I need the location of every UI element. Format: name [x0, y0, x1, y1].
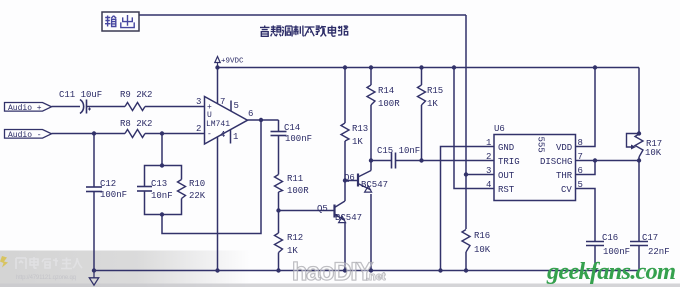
node ground at C16	[593, 268, 597, 272]
svg-text:2: 2	[196, 124, 201, 134]
svg-text:BC547: BC547	[361, 180, 388, 190]
svg-text:TRIG: TRIG	[498, 157, 520, 167]
resistor R13	[341, 123, 349, 141]
node ground at 555 GND wire	[438, 268, 442, 272]
svg-text:C12: C12	[100, 179, 116, 189]
capacitor C12	[86, 187, 102, 192]
IC U6 555	[494, 135, 576, 201]
svg-text:DISCHG: DISCHG	[540, 157, 572, 167]
power symbol +9VDC	[215, 57, 220, 68]
wire op-amp pin7 to rail	[217, 68, 219, 105]
node R17 bottom/DISCHG/C17	[637, 158, 641, 162]
svg-text:1K: 1K	[352, 137, 363, 147]
svg-text:4: 4	[486, 180, 491, 190]
svg-text:7: 7	[578, 152, 583, 162]
svg-text:-: -	[207, 130, 212, 139]
svg-text:22K: 22K	[189, 191, 206, 201]
wire op-amp output	[248, 119, 279, 121]
svg-text:geekfans.com: geekfans.com	[546, 258, 676, 285]
svg-text:R8 2K2: R8 2K2	[120, 119, 152, 129]
wire node pin2 down to C13/R10 loop	[161, 134, 163, 166]
wire C15 to TRIG pin2	[396, 160, 495, 162]
svg-text:1: 1	[486, 138, 491, 148]
wire R9 to op-amp pin3	[145, 106, 205, 108]
wire audio+ input	[52, 106, 81, 108]
svg-text:R13: R13	[352, 124, 368, 134]
svg-text:8: 8	[578, 138, 583, 148]
svg-text:5: 5	[234, 101, 239, 111]
node R14/Q6 collector/C15	[369, 158, 373, 162]
wire C17 to ground	[638, 246, 640, 271]
wire 555 pin7 DISCHG to R17 bottom	[576, 160, 640, 162]
wire 555 pin4 RST to rail	[454, 68, 494, 189]
power rail +9V	[218, 67, 640, 69]
svg-text:22nF: 22nF	[648, 247, 670, 257]
svg-text:3: 3	[486, 166, 491, 176]
svg-text:1: 1	[233, 132, 238, 142]
node +9V at op-amp pin7	[215, 65, 219, 69]
node R11/R12/Q5 base	[276, 208, 280, 212]
glyphs 输出	[105, 15, 134, 28]
wire output to C14	[278, 120, 280, 132]
wire Q5 emitter to ground	[344, 222, 346, 271]
svg-text:555: 555	[536, 137, 546, 153]
wire R12 to ground	[278, 253, 280, 271]
svg-text:Audio -: Audio -	[8, 131, 42, 140]
svg-text:BC547: BC547	[335, 213, 362, 223]
wire output vertical drop to OUT node	[465, 15, 467, 229]
node ground at op-amp pin4	[215, 268, 219, 272]
resistor R8	[125, 130, 145, 138]
capacitor C14	[271, 132, 287, 136]
svg-text:4: 4	[220, 130, 225, 140]
resistor R16	[462, 230, 470, 253]
transistor Q5	[335, 181, 346, 223]
node ground at Q6 emitter	[369, 268, 373, 272]
wire R15 top to rail	[421, 68, 423, 86]
svg-text:R10: R10	[189, 179, 205, 189]
svg-text:Q5: Q5	[317, 204, 328, 214]
svg-text:100R: 100R	[287, 186, 309, 196]
svg-text:7: 7	[220, 97, 225, 107]
svg-text:C13: C13	[151, 179, 167, 189]
resistor R11	[275, 175, 283, 193]
wire R17 bottom node down to C17	[638, 157, 640, 242]
wire OUT node to ground via R16 lead	[465, 252, 467, 271]
node ground at R16	[464, 268, 468, 272]
svg-text:R12: R12	[287, 233, 303, 243]
wire R14 bottom to Q6 collector node	[370, 105, 372, 161]
resistor R15	[418, 85, 426, 105]
svg-text:R15: R15	[427, 86, 443, 96]
node +9V at R13	[343, 65, 347, 69]
svg-text:10K: 10K	[474, 245, 491, 255]
svg-text:CV: CV	[561, 185, 572, 195]
svg-text:http://4791121.qzone.qq: http://4791121.qzone.qq	[16, 275, 76, 281]
svg-text:6: 6	[248, 109, 253, 119]
resistor R14	[367, 85, 375, 105]
svg-text:2: 2	[486, 152, 491, 162]
node +9V at RST wire	[452, 65, 456, 69]
node +9V at R14	[369, 65, 373, 69]
wire 555 pin3 OUT stub	[466, 174, 494, 176]
svg-text:U6: U6	[494, 124, 505, 134]
node +9V at R15	[419, 65, 423, 69]
node op-amp inverting input	[160, 131, 164, 135]
wire C12 branch down	[93, 134, 95, 188]
svg-text:100nF: 100nF	[100, 190, 127, 200]
title 音频调制灭弧电路	[260, 26, 348, 37]
capacitor C15	[392, 153, 396, 169]
transistor Q6	[358, 161, 372, 193]
wire rail right end down to R17	[638, 68, 640, 135]
wire C16 to ground	[594, 246, 596, 271]
wire R11 to node	[278, 192, 280, 233]
svg-text:U: U	[207, 111, 212, 120]
watermark lightning icon	[0, 256, 8, 268]
wire Q5 collector node to Q6 base	[345, 180, 358, 182]
wire C14 to R11	[278, 136, 280, 175]
node +9V at VDD wire	[593, 65, 597, 69]
port Audio -	[5, 130, 52, 141]
svg-text:OUT: OUT	[498, 171, 515, 181]
capacitor C17	[630, 242, 648, 246]
svg-text:R9 2K2: R9 2K2	[120, 90, 152, 100]
wire Q6 emitter to ground	[370, 194, 372, 271]
wire C13/R10 loop top	[145, 166, 182, 187]
svg-text:Q6: Q6	[344, 173, 355, 183]
svg-text:10K: 10K	[645, 148, 662, 158]
svg-text:.net: .net	[366, 271, 386, 283]
node op-amp output	[259, 118, 263, 122]
node ground at C12	[92, 268, 96, 272]
svg-text:THR: THR	[556, 171, 573, 181]
svg-text:C16: C16	[602, 233, 618, 243]
svg-text:VDD: VDD	[556, 143, 572, 153]
svg-text:LM741: LM741	[206, 120, 230, 129]
wire C11 to R9	[87, 106, 125, 108]
capacitor C13	[137, 187, 152, 192]
svg-text:R14: R14	[378, 86, 394, 96]
svg-text:100nF: 100nF	[603, 247, 630, 257]
svg-text:R11: R11	[287, 174, 303, 184]
wire node to Q5 base	[279, 210, 335, 212]
wire 555 pin6 THR up to DISCHG line	[576, 161, 596, 175]
wire C12 to ground	[93, 192, 95, 271]
wire R15 bottom to TRIG node	[421, 105, 423, 161]
capacitor C11	[80, 100, 91, 114]
svg-text:5: 5	[578, 180, 583, 190]
svg-text:1K: 1K	[287, 246, 298, 256]
resistor R12	[275, 233, 283, 253]
port Audio +	[5, 103, 52, 114]
ground rail	[94, 270, 639, 272]
svg-text:100R: 100R	[378, 99, 400, 109]
svg-text:10nF: 10nF	[151, 191, 173, 201]
svg-text:C11 10uF: C11 10uF	[59, 90, 102, 100]
svg-text:Audio +: Audio +	[8, 104, 42, 113]
svg-text:haoDIY: haoDIY	[292, 258, 373, 286]
svg-text:C14: C14	[284, 123, 300, 133]
wire C13/R10 loop bottom	[145, 191, 182, 215]
port 输出 box	[102, 12, 139, 31]
node R13/Q5 collector/Q6 base	[343, 178, 347, 182]
svg-text:RST: RST	[498, 185, 515, 195]
wire R13 bottom to Q5 collector node	[344, 141, 346, 181]
svg-text:R16: R16	[474, 231, 490, 241]
watermark 闪电的主人 glyphs	[16, 257, 82, 269]
wire output top horizontal	[139, 14, 466, 16]
svg-text:+9VDC: +9VDC	[221, 58, 244, 66]
wire 555 pin5 CV down to C16	[576, 189, 596, 242]
potentiometer R17	[627, 134, 644, 158]
node R17 top/wiper	[637, 131, 641, 135]
node C13/R10 loop top	[160, 163, 164, 167]
op-amp U LM741	[205, 97, 248, 145]
wire R13 top to rail	[344, 68, 346, 124]
capacitor C16	[586, 242, 604, 246]
wire 555 pin8 VDD to rail	[576, 68, 596, 147]
wire R8 to op-amp pin2	[145, 133, 205, 135]
watermark band bottom-left	[0, 251, 250, 287]
wire feedback loop bottom to output	[162, 120, 261, 234]
node DISCHG/THR	[593, 158, 597, 162]
wire audio- to R8	[52, 133, 126, 135]
bottom strip	[0, 284, 680, 287]
svg-text:C17: C17	[642, 233, 658, 243]
wire Q6 collector node to C15	[371, 160, 392, 162]
node OUT pin3/R16	[464, 172, 468, 176]
wire 555 pin1 GND to ground rail	[441, 147, 495, 271]
resistor R10	[178, 180, 186, 199]
wire op-amp pin4 to ground	[217, 137, 219, 271]
node audio- at C12	[92, 131, 96, 135]
node R15/C15/TRIG	[419, 158, 423, 162]
svg-text:100nF: 100nF	[285, 134, 312, 144]
svg-text:6: 6	[578, 166, 583, 176]
svg-text:1K: 1K	[427, 99, 438, 109]
ground	[89, 271, 98, 286]
wire R14 top to rail	[370, 68, 372, 86]
node ground at R12	[276, 268, 280, 272]
svg-text:GND: GND	[498, 143, 514, 153]
node ground at Q5 emitter	[343, 268, 347, 272]
svg-text:C15 10nF: C15 10nF	[377, 146, 420, 156]
svg-text:3: 3	[196, 97, 201, 107]
node C13/R10 loop bottom	[160, 212, 164, 216]
resistor R9	[125, 103, 145, 111]
